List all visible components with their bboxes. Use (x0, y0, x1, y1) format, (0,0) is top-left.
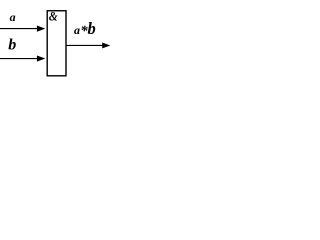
svg-text:b: b (88, 19, 96, 38)
wire input b (0, 58, 40, 60)
svg-text:&: & (49, 10, 58, 24)
arrowhead input a (37, 26, 45, 32)
svg-text:b: b (8, 37, 16, 54)
AND gate schematic (0, 0, 129, 91)
wire output a*b (66, 44, 104, 46)
arrowhead output (102, 43, 110, 49)
wire input a (0, 28, 40, 30)
net label a*b (74, 19, 96, 39)
svg-text:a: a (10, 10, 16, 24)
svg-text:a: a (74, 23, 80, 37)
arrowhead input b (37, 55, 45, 61)
AND gate body U1 (47, 11, 66, 76)
